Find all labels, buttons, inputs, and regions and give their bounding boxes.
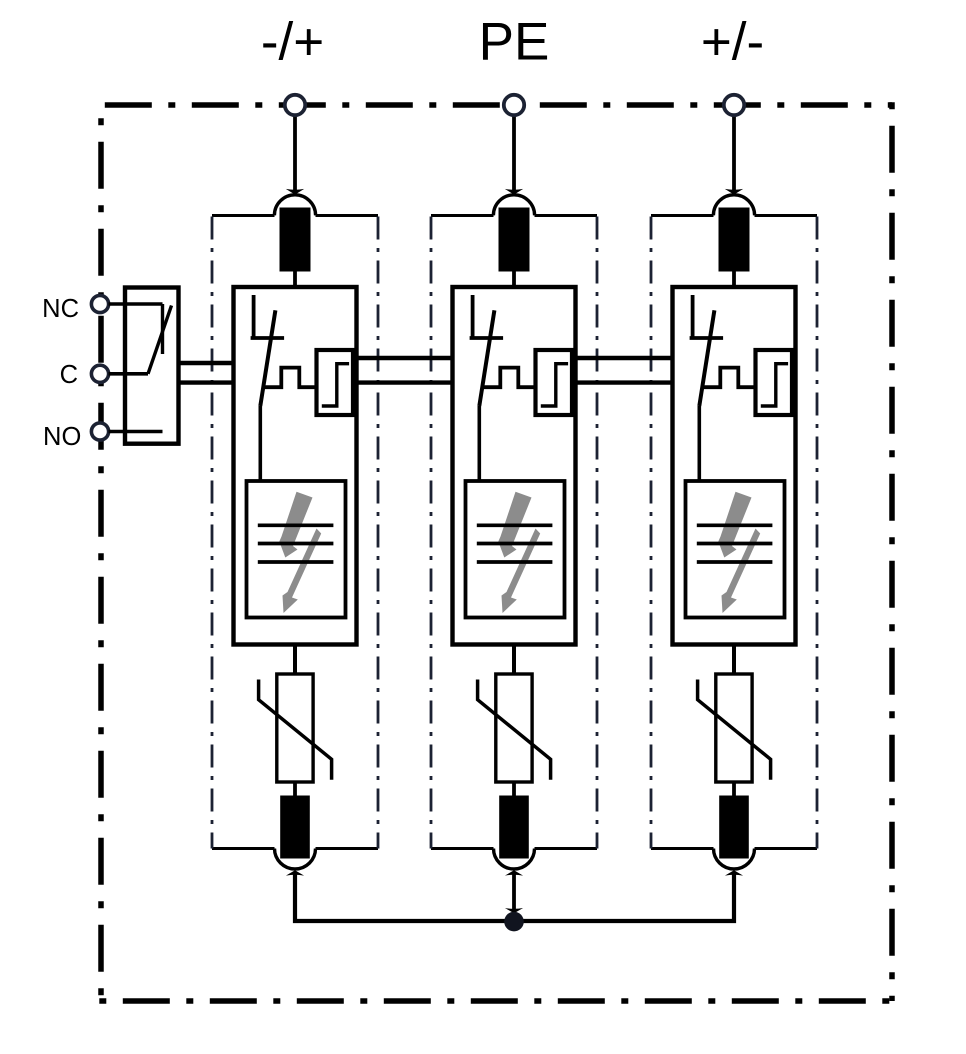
svg-text:NO: NO: [43, 423, 81, 451]
svg-text:C: C: [60, 361, 78, 389]
svg-text:+/-: +/-: [701, 13, 764, 72]
svg-text:NC: NC: [42, 295, 79, 323]
svg-text:-/+: -/+: [261, 13, 324, 72]
svg-text:PE: PE: [479, 13, 550, 72]
